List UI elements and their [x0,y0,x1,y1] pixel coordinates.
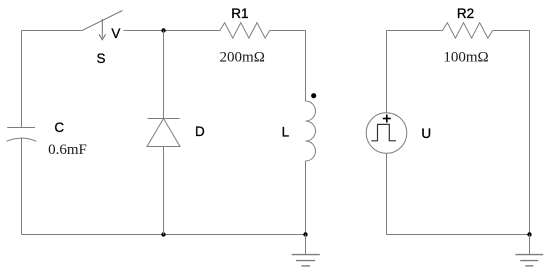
wire right branch down to inductor [305,31,307,102]
diode D top lead [163,31,165,119]
junction dot bottom right of left circuit [303,232,307,236]
svg-text:200mΩ: 200mΩ [220,50,265,66]
capacitor C top plate [7,127,35,129]
wire R1 to right corner [270,30,306,32]
junction dot bottom diode branch [161,232,165,236]
node junction dot top [161,28,165,32]
inductor phase dot [311,93,316,98]
resistor R2 [443,23,493,38]
ground right stub [529,235,531,255]
wire left branch of right circuit to source [386,31,388,113]
svg-text:R1: R1 [231,6,248,21]
diode D bottom lead [163,147,165,235]
wire R2 to right corner [493,30,530,32]
source U plus sign [383,115,391,123]
capacitor C bottom lead [21,138,23,234]
wire switch to R1 [124,30,220,32]
wire right branch of right circuit [529,31,531,235]
switch S blade [82,11,123,31]
svg-text:R2: R2 [457,6,474,21]
resistor R1 [220,23,270,38]
inductor L [306,101,316,161]
diode D triangle [147,119,180,147]
ground right bars [516,255,544,266]
svg-text:L: L [282,125,290,140]
svg-text:V: V [111,26,120,41]
svg-text:D: D [195,124,205,139]
bottom wire right circuit [387,234,530,236]
bottom wire left circuit [22,234,306,236]
svg-text:100mΩ: 100mΩ [443,49,488,65]
wire source to bottom [386,153,388,234]
svg-text:U: U [421,126,431,141]
svg-text:S: S [96,51,105,66]
capacitor C top lead [21,31,23,128]
switch actuation arrow [99,19,106,40]
ground left bars [292,255,320,266]
svg-text:C: C [54,120,64,135]
wire top right circuit left segment [387,30,443,32]
source U circle [366,113,407,154]
svg-text:0.6mF: 0.6mF [48,142,87,158]
capacitor C curved plate [7,138,37,141]
source U pulse waveform [371,124,396,140]
diode D cathode bar [148,118,180,120]
ground left stub [305,235,307,255]
wire top-left horizontal [22,30,83,32]
wire inductor to bottom [305,161,307,235]
junction dot bottom right [527,232,531,236]
